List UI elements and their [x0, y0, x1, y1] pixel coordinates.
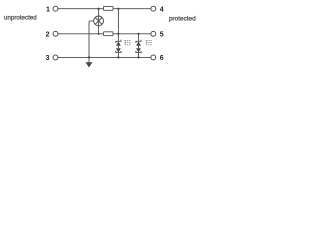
- wire GDT bottom stub: [98, 26, 100, 34]
- terminal circle 4: [151, 6, 156, 11]
- wire diode branch 1 lower: [117, 53, 119, 58]
- terminal circle 6: [151, 55, 156, 60]
- suppressor diode D2 (back-to-back pair): [136, 40, 141, 53]
- thermal disconnect marker D1: [125, 40, 130, 44]
- junction node row2 branch1: [117, 33, 119, 35]
- svg-text:5: 5: [160, 31, 164, 38]
- wire row3 ground rail: [58, 56, 151, 58]
- wire row1 right: [113, 8, 151, 10]
- svg-text:2: 2: [46, 31, 50, 38]
- terminal circle 2: [53, 31, 58, 36]
- terminal circle 3: [53, 55, 58, 60]
- junction node row2 branch2: [137, 33, 139, 35]
- terminal circle 5: [151, 31, 156, 36]
- junction node row3 ground: [88, 56, 90, 58]
- background: [0, 0, 200, 78]
- wire GDT top stub: [98, 9, 100, 16]
- junction node row3 branch1: [117, 56, 119, 58]
- resistor R1: [103, 6, 113, 10]
- junction node row3 branch2: [137, 56, 139, 58]
- wire row2 right: [113, 33, 151, 35]
- wire ground stem: [88, 57, 90, 62]
- wire diode branch 2 lower: [138, 53, 140, 58]
- thermal disconnect marker D2: [146, 40, 151, 44]
- junction node row1 branch1: [117, 8, 119, 10]
- junction node row1 GDT: [98, 8, 100, 10]
- wire diode branch 1 upper: [117, 9, 119, 42]
- svg-text:3: 3: [46, 55, 50, 62]
- terminal circle 1: [53, 6, 58, 11]
- svg-text:unprotected: unprotected: [4, 15, 37, 22]
- svg-text:6: 6: [160, 55, 164, 62]
- svg-text:1: 1: [46, 6, 50, 13]
- gas discharge tube: [94, 16, 104, 26]
- svg-text:4: 4: [160, 6, 164, 13]
- junction node row2 GDT: [98, 33, 100, 35]
- wire row1 left: [58, 8, 103, 10]
- wire diode branch 2 upper: [138, 34, 140, 42]
- suppressor diode D1 (back-to-back pair): [116, 40, 121, 53]
- wire GDT side electrode to ground: [89, 21, 94, 58]
- wire row2 left: [58, 33, 103, 35]
- resistor R2: [103, 32, 113, 36]
- svg-text:protected: protected: [169, 16, 196, 23]
- ground arrow: [86, 62, 93, 67]
